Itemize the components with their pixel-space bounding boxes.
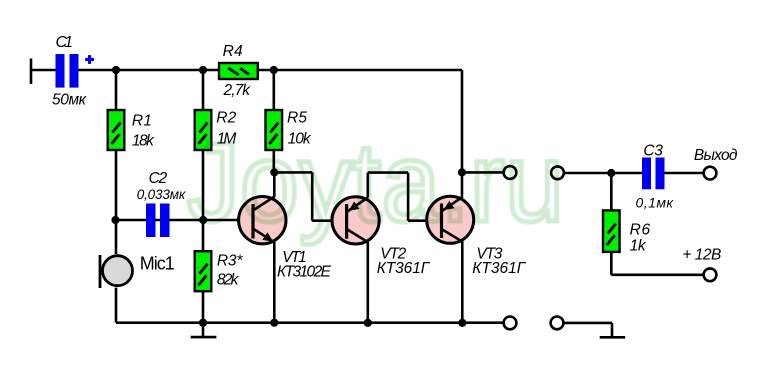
svg-text:C3: C3: [643, 142, 663, 159]
svg-text:КТ361Г: КТ361Г: [377, 260, 431, 277]
terminal circle Выход: [704, 167, 717, 180]
wire R3 bottom to bottom rail: [202, 291, 205, 323]
node VT1 collector junction: [270, 168, 278, 176]
terminal circle bottom right: [551, 317, 564, 330]
svg-text:R3*: R3*: [217, 253, 243, 270]
svg-text:R1: R1: [132, 113, 152, 130]
resistor R1: [108, 110, 125, 150]
svg-text:2,7k: 2,7k: [223, 82, 252, 99]
terminal circle +12V: [704, 268, 717, 281]
ground left: [191, 323, 217, 337]
wire C2 horizontal / VT1 base: [116, 219, 239, 222]
svg-text:R6: R6: [630, 222, 651, 239]
wire R1 bottom to mic: [115, 150, 118, 254]
resistor R5: [266, 110, 283, 150]
node R2-R4 junction: [199, 66, 207, 74]
svg-text:C2: C2: [149, 170, 168, 187]
wire R5 top lead: [272, 70, 275, 110]
wire right vertical from rail to VT3: [461, 70, 464, 197]
input terminal: [30, 59, 33, 85]
wire VT2 to VT3 base: [368, 173, 427, 221]
svg-text:0,033мк: 0,033мк: [137, 187, 186, 202]
wire VT1 collector to VT2 base: [274, 172, 332, 220]
svg-text:R4: R4: [223, 43, 243, 60]
microphone Mic1: [100, 255, 133, 288]
node C1-R1 junction: [112, 66, 120, 74]
ground right: [600, 336, 626, 339]
wire mic to bottom rail: [115, 288, 118, 323]
wire R2 bottom to R3 top: [202, 150, 205, 251]
svg-text:C1: C1: [56, 34, 74, 51]
wire R5 bottom to VT1 collector node: [272, 150, 275, 172]
wire VT2 collector to bottom rail: [366, 242, 369, 323]
node C2-R3 junction: [199, 216, 207, 224]
wire top rail: [79, 69, 463, 72]
svg-text:1k: 1k: [630, 237, 647, 254]
wire VT1 emitter to bottom rail: [273, 242, 276, 323]
wire VT2 emitter lead up: [366, 173, 369, 198]
wire VT3 collector to bottom rail: [461, 241, 464, 322]
svg-text:0,1мк: 0,1мк: [636, 195, 675, 211]
node C2 left junction: [111, 216, 119, 224]
wire R6 bottom to +12V terminal: [611, 252, 703, 275]
resistor R4: [219, 63, 258, 79]
capacitor C3: [642, 158, 665, 190]
wire bottom right terminal to ground: [564, 323, 613, 337]
node VT3 collector junction: [458, 319, 466, 327]
terminal circle out top left: [504, 166, 517, 179]
resistor R3: [195, 251, 212, 291]
node VT2 collector junction: [364, 319, 372, 327]
svg-text:+ 12В: + 12В: [682, 247, 721, 264]
wire R6 top lead: [610, 173, 613, 210]
svg-text:18k: 18k: [132, 132, 155, 149]
node R4-R5 junction: [270, 66, 278, 74]
wire R1 top lead: [115, 70, 118, 110]
transistor VT1: [239, 197, 286, 244]
wire node to output terminal: [462, 171, 503, 174]
terminal circle out top right: [551, 166, 564, 179]
svg-text:Mic1: Mic1: [140, 253, 175, 273]
transistor VT3: [427, 196, 474, 243]
node C3-R6 junction: [607, 169, 615, 177]
resistor R6: [603, 210, 620, 252]
wire VT1 collector lead: [273, 172, 276, 196]
wire R2 top lead: [202, 70, 205, 110]
capacitor C1: [56, 54, 79, 88]
node VT1 emitter junction: [270, 319, 278, 327]
capacitor C2: [146, 204, 170, 238]
svg-text:КТ3102Е: КТ3102Е: [277, 264, 332, 281]
resistor R2: [195, 110, 212, 150]
wire input to C1: [31, 69, 56, 72]
wire terminal to C3: [564, 172, 642, 175]
svg-text:Joyta.ru: Joyta.ru: [187, 120, 564, 245]
transistor VT2: [332, 197, 379, 244]
svg-text:50мк: 50мк: [52, 91, 87, 108]
node ground-R3 junction: [199, 319, 207, 327]
terminal circle bottom left: [504, 317, 517, 330]
svg-text:КТ361Г: КТ361Г: [472, 260, 527, 277]
wire C3 to output circle: [665, 172, 704, 175]
wire bottom rail: [116, 321, 503, 324]
C1 polarity plus: [85, 55, 94, 64]
svg-text:Выход: Выход: [694, 147, 738, 164]
node VT3 emitter junction: [458, 168, 466, 176]
svg-text:82k: 82k: [217, 271, 240, 288]
